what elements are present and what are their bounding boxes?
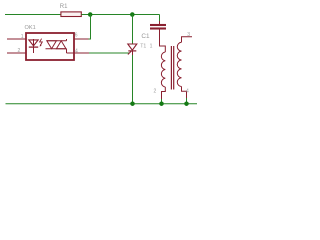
svg-text:R1: R1 [60,4,68,10]
optocoupler OK1 [7,25,89,60]
wire [132,15,134,45]
pin 2 [7,52,26,54]
thyristor T1 [128,44,147,56]
pin 6 [74,38,89,40]
pin 1 [7,38,26,40]
emission arrow [40,39,43,46]
node junction 2 [130,12,135,17]
pin 3 [182,37,193,43]
resistor R1 [60,4,82,16]
node junction 5 [184,101,189,106]
wire [186,98,188,104]
svg-text:6: 6 [75,33,78,39]
capacitor C1 [141,21,166,46]
wire [5,14,61,16]
pin 1 [159,46,165,52]
svg-text:T1: T1 [140,44,146,50]
node junction 3 [130,101,135,106]
svg-text:2: 2 [18,48,21,54]
transformer TR1 [150,32,192,99]
LED inside OK1 [33,39,35,53]
pin 2 [162,87,166,99]
wire [89,52,129,54]
phototriac inside OK1 [47,40,67,42]
core [170,46,172,90]
svg-text:1: 1 [21,34,24,40]
wire [132,55,134,104]
svg-text:1: 1 [150,44,153,50]
svg-text:4: 4 [186,89,189,95]
pin 4 [182,87,187,99]
svg-text:OK1: OK1 [25,25,36,31]
wire [87,15,91,40]
secondary winding [177,42,181,86]
wire [82,14,160,16]
node junction 1 [88,12,93,17]
node junction 4 [159,101,164,106]
svg-text:3: 3 [187,32,190,38]
wire [159,15,161,22]
primary winding [161,52,165,87]
wire bottom rail [6,103,198,105]
svg-text:C1: C1 [141,33,150,40]
pin 4 [74,52,89,54]
wire [161,99,163,104]
svg-text:4: 4 [75,48,78,54]
svg-text:2: 2 [154,88,157,94]
